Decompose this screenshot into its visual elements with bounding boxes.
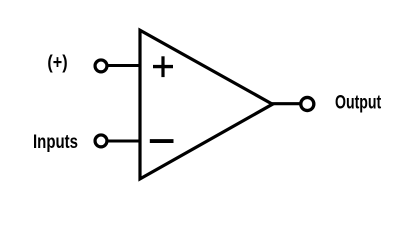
wire output (271, 102, 301, 105)
op-amp noninverting pin + symbol (153, 56, 173, 77)
op-amp U1 triangle body (140, 30, 273, 179)
terminal circle output (301, 97, 314, 110)
terminal circle noninverting input (95, 60, 107, 72)
svg-text:(+): (+) (47, 53, 67, 74)
wire noninverting input (107, 64, 142, 67)
svg-text:Output: Output (335, 93, 382, 114)
svg-text:Inputs: Inputs (33, 131, 78, 153)
terminal circle inverting input (95, 135, 107, 147)
op-amp inverting pin - symbol (150, 139, 174, 143)
wire inverting input (107, 139, 142, 142)
